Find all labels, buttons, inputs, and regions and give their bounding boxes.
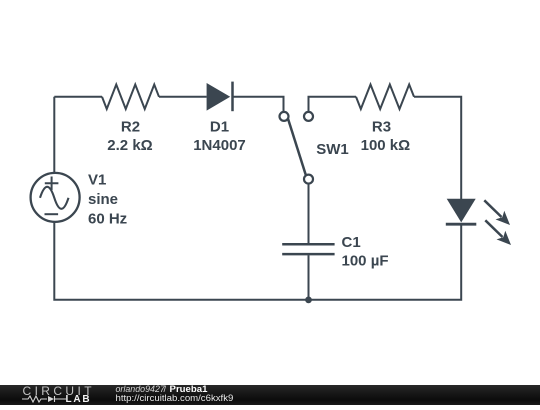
svg-text:2.2 kΩ: 2.2 kΩ (107, 137, 152, 154)
svg-text:100 kΩ: 100 kΩ (361, 137, 411, 154)
svg-text:R3: R3 (372, 119, 391, 136)
svg-text:sine: sine (88, 191, 118, 208)
svg-text:100 µF: 100 µF (342, 252, 389, 269)
svg-text:60 Hz: 60 Hz (88, 211, 127, 228)
svg-text:D1: D1 (210, 119, 229, 136)
svg-text:SW1: SW1 (316, 141, 349, 158)
svg-text:R2: R2 (121, 119, 140, 136)
svg-text:C1: C1 (342, 234, 361, 251)
svg-text:1N4007: 1N4007 (193, 137, 246, 154)
svg-text:V1: V1 (88, 171, 106, 188)
